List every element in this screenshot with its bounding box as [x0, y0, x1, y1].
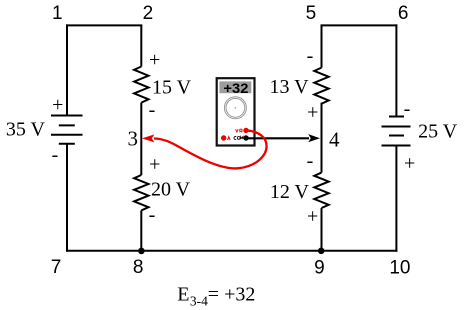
- black lead arrowhead at node 4: [308, 134, 320, 142]
- multimeter dial: [224, 97, 246, 119]
- svg-text:+: +: [149, 49, 160, 71]
- svg-text:4: 4: [329, 127, 340, 151]
- wire top-left horizontal node1-node2: [66, 24, 142, 26]
- svg-text:15 V: 15 V: [152, 77, 192, 99]
- svg-text:+: +: [52, 94, 63, 116]
- svg-text:+: +: [149, 154, 160, 176]
- wire branch node5 to resistor R3 top: [321, 25, 323, 67]
- svg-text:6: 6: [398, 3, 409, 24]
- wire top-right horizontal node5-node6: [321, 24, 398, 26]
- svg-text:+32: +32: [223, 81, 248, 96]
- junction node 8 dot: [138, 248, 145, 255]
- resistor R1 15V zigzag: [134, 67, 148, 103]
- svg-text:13 V: 13 V: [269, 76, 309, 98]
- multimeter V port (red): [243, 128, 248, 133]
- wire bottom horizontal node7-node10: [66, 250, 397, 252]
- wire R4 bottom to node9: [321, 208, 323, 251]
- svg-text:+: +: [404, 153, 415, 175]
- battery B1 35V plates: [51, 116, 83, 144]
- resistor R3 13V zigzag: [314, 68, 328, 104]
- svg-text:3: 3: [128, 127, 139, 151]
- multimeter V-ohm label (micro glyphs): [236, 129, 243, 132]
- multimeter display: [219, 81, 251, 93]
- svg-text:35 V: 35 V: [6, 119, 46, 141]
- svg-text:E3-4= +32: E3-4= +32: [177, 284, 255, 309]
- wire node3 segment (R1 bottom to R2 top): [140, 103, 142, 175]
- resistor R2 20V zigzag: [134, 175, 148, 210]
- svg-text:10: 10: [389, 257, 410, 278]
- svg-text:-: -: [404, 98, 411, 120]
- svg-text:9: 9: [314, 257, 325, 278]
- svg-text:7: 7: [51, 257, 62, 278]
- black test lead COM to node 4: [246, 137, 309, 139]
- multimeter A label (micro glyph): [228, 137, 231, 141]
- red lead arrowhead at node 3: [142, 134, 155, 142]
- wire branch node2 to resistor R1 top: [140, 25, 142, 66]
- multimeter COM port (black): [243, 135, 248, 140]
- battery B2 25V plates: [382, 117, 411, 146]
- multimeter body: [217, 78, 255, 145]
- svg-text:1: 1: [52, 3, 63, 24]
- junction node 9 dot: [318, 248, 325, 255]
- svg-text:12 V: 12 V: [270, 181, 310, 203]
- wire left vertical lower (battery B1 to node7): [66, 144, 68, 252]
- svg-text:20 V: 20 V: [151, 178, 191, 200]
- red test lead V port to node 3 (curved): [154, 130, 267, 168]
- svg-text:-: -: [307, 45, 314, 67]
- svg-text:-: -: [149, 204, 156, 226]
- wire right vertical lower (battery B2 to node10): [395, 146, 397, 252]
- wire right vertical upper (node6 to battery B2): [395, 24, 397, 116]
- multimeter COM label (micro glyphs): [234, 137, 243, 140]
- svg-text:-: -: [307, 150, 314, 172]
- svg-text:-: -: [52, 144, 59, 166]
- resistor R4 12V zigzag: [314, 173, 328, 208]
- wire node4 segment (R3 bottom to R4 top): [321, 103, 323, 173]
- svg-text:2: 2: [143, 3, 154, 24]
- svg-text:-: -: [149, 99, 156, 121]
- wire left vertical upper (node1 to battery B1): [66, 24, 68, 115]
- svg-text:25 V: 25 V: [418, 121, 458, 143]
- wire R2 bottom to node8: [140, 210, 142, 251]
- svg-text:8: 8: [133, 257, 144, 278]
- svg-text:+: +: [307, 101, 318, 123]
- svg-text:+: +: [307, 206, 318, 228]
- multimeter A port (red): [221, 135, 226, 140]
- svg-text:5: 5: [306, 3, 317, 24]
